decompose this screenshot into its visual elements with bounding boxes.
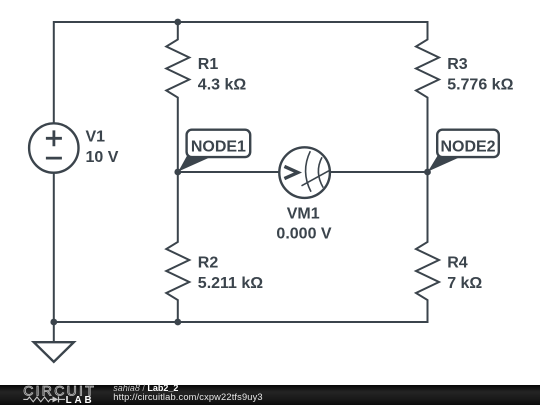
svg-text:R4: R4 (447, 255, 468, 272)
svg-text:LAB: LAB (66, 395, 95, 405)
node NODE2 (428, 130, 499, 172)
junction dot NODE1 (174, 169, 181, 176)
voltage source V1 (29, 123, 119, 172)
wire middle left (NODE1 to voltmeter) (178, 171, 280, 173)
junction dot bottom-left (50, 319, 57, 326)
junction dot NODE2 (424, 169, 431, 176)
wire middle right (voltmeter to NODE2) (329, 171, 428, 173)
svg-text:NODE1: NODE1 (191, 138, 246, 155)
svg-text:R3: R3 (447, 56, 468, 73)
ground (34, 322, 74, 362)
junction dot bottom middle (R2 bottom) (174, 319, 181, 326)
svg-text:10 V: 10 V (86, 149, 119, 166)
node NODE1 (178, 130, 250, 172)
svg-text:R2: R2 (198, 255, 219, 272)
resistor R2 (166, 172, 263, 322)
svg-text:4.3 kΩ: 4.3 kΩ (198, 76, 247, 93)
svg-text:0.000 V: 0.000 V (276, 226, 331, 243)
resistor R1 (166, 22, 246, 172)
wire left vertical upper (53, 21, 55, 123)
wire left vertical lower (53, 173, 55, 322)
svg-text:7 kΩ: 7 kΩ (447, 275, 482, 292)
junction dot top (R1 top) (174, 19, 181, 26)
resistor R3 (416, 21, 514, 172)
wire top rail (54, 21, 429, 23)
voltmeter VM1 (276, 147, 331, 242)
resistor R4 (416, 172, 482, 322)
svg-text:V1: V1 (86, 129, 106, 146)
svg-text:NODE2: NODE2 (440, 138, 495, 155)
svg-text:5.211 kΩ: 5.211 kΩ (198, 275, 263, 292)
svg-text:5.776 kΩ: 5.776 kΩ (447, 76, 513, 93)
svg-text:http://circuitlab.com/cxpw22tf: http://circuitlab.com/cxpw22tfs9uy3 (113, 392, 262, 402)
CircuitLab logo (23, 383, 96, 405)
wire bottom rail (54, 321, 429, 323)
svg-text:VM1: VM1 (287, 206, 320, 223)
svg-text:R1: R1 (198, 56, 219, 73)
